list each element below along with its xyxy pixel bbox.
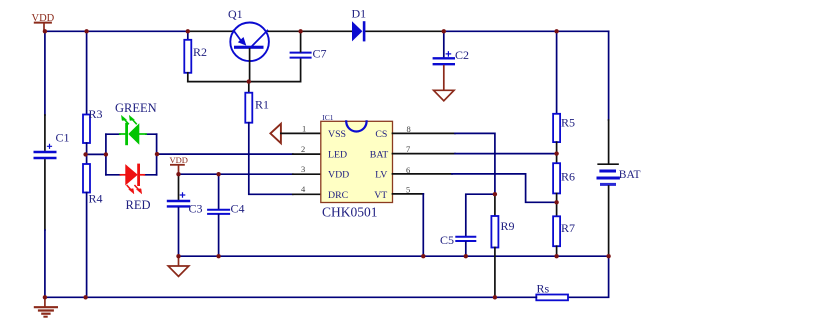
resistor R2	[187, 31, 189, 40]
svg-text:C7: C7	[313, 47, 327, 61]
junction LED box left	[104, 152, 108, 156]
capacitor C2	[443, 31, 445, 57]
svg-text:7: 7	[406, 144, 410, 154]
svg-text:VDD: VDD	[32, 13, 55, 24]
svg-text:R2: R2	[193, 45, 207, 59]
junction VDD port / C3 / pin3 line	[176, 172, 180, 176]
wire top rail D1 to C2	[365, 30, 443, 32]
diode D1	[352, 21, 365, 41]
svg-text:RED: RED	[126, 198, 151, 212]
svg-text:DRC: DRC	[328, 190, 348, 201]
wire pin6 LV route	[393, 173, 453, 175]
wire battery bottom vertical	[608, 186, 610, 256]
svg-text:VSS: VSS	[328, 129, 346, 140]
wire top rail left (VDD to R2)	[45, 30, 188, 32]
svg-text:CHK0501: CHK0501	[322, 205, 378, 220]
junction sense line / battery minus	[606, 254, 610, 258]
wire pin7 BAT line	[393, 153, 456, 155]
junction VDD rail / R2 top	[186, 29, 190, 33]
svg-text:VDD: VDD	[328, 170, 349, 181]
junction C4 bottom / sense line	[216, 254, 220, 258]
svg-text:IC1: IC1	[322, 113, 334, 122]
junction rail / R5 top	[554, 29, 558, 33]
wire left vertical upper (VDD rail to C1)	[44, 31, 46, 115]
junction pin6 / R6 / R7	[554, 200, 558, 204]
wire LED box right vertical	[156, 134, 158, 175]
wire top rail C2 to right corner	[444, 30, 609, 32]
wire LED box top branch	[106, 133, 157, 135]
capacitor C4	[218, 174, 220, 209]
capacitor C3	[178, 174, 180, 199]
svg-text:VT: VT	[374, 190, 387, 201]
wire R3 to R4	[86, 143, 88, 164]
junction pin5 / sense line	[421, 254, 425, 258]
junction VDD rail / C7 top	[298, 29, 302, 33]
wire pin5 VT route	[393, 193, 424, 195]
junction C4 top / pin3 line	[216, 172, 220, 176]
wire pin3 VDD line	[179, 173, 293, 175]
IC pin names	[328, 129, 388, 201]
wire R1 down to DRC pin line	[249, 123, 293, 195]
svg-text:8: 8	[407, 124, 411, 134]
svg-text:Rs: Rs	[537, 282, 550, 296]
LED GREEN (D green, cathode bar left)	[120, 116, 146, 144]
junction R7 bottom / sense line	[554, 254, 558, 258]
IC U1 CHK0501 body	[321, 121, 393, 202]
svg-text:BAT: BAT	[370, 149, 389, 160]
wire left vertical lower (C1 to ground rail)	[44, 160, 46, 230]
pin 3 stub	[293, 173, 321, 175]
junction C3 bottom / gnd triangle	[176, 254, 180, 258]
wire R4 to ground rail	[86, 193, 88, 298]
ground (power gnd) below C3	[178, 256, 180, 266]
svg-text:3: 3	[301, 164, 305, 174]
svg-text:D1: D1	[352, 7, 367, 21]
resistor R9	[491, 216, 498, 248]
wire pin8 CS right then down	[393, 132, 456, 134]
svg-text:C5: C5	[440, 233, 454, 247]
power port VDD top-left	[35, 23, 51, 32]
pin 2 stub	[293, 153, 321, 155]
svg-text:2: 2	[301, 144, 305, 154]
earth ground bottom-left	[35, 297, 57, 316]
svg-text:Q1: Q1	[228, 7, 243, 21]
svg-text:LED: LED	[328, 149, 347, 160]
svg-text:C2: C2	[455, 48, 469, 62]
wire base line R2 to C7 riser	[188, 58, 301, 81]
svg-text:5: 5	[406, 184, 410, 194]
svg-text:R5: R5	[561, 116, 575, 130]
capacitor C7	[291, 53, 311, 58]
capacitor C5	[456, 237, 475, 241]
resistor R1	[248, 82, 250, 93]
wire stub R3R4 node to LED box	[86, 153, 106, 155]
junction ground rail / R9	[493, 295, 497, 299]
junction C5 bottom / sense line	[464, 254, 468, 258]
svg-text:R6: R6	[561, 170, 575, 184]
svg-text:LV: LV	[375, 170, 387, 181]
svg-text:R9: R9	[501, 219, 515, 233]
battery BAT	[598, 164, 618, 184]
svg-text:VDD: VDD	[170, 155, 188, 165]
wire battery top vertical	[608, 31, 610, 120]
wire LED box left vertical	[105, 134, 107, 175]
wire pin2 LED line	[157, 153, 293, 155]
junction rail / C2 top	[442, 29, 446, 33]
svg-text:CS: CS	[375, 129, 387, 140]
wire pin1 VSS	[281, 132, 321, 134]
transistor Q1	[230, 23, 269, 82]
junction R3 R4 LED tap	[83, 152, 87, 156]
wire LED box bottom branch	[106, 174, 157, 176]
svg-text:C3: C3	[189, 202, 203, 216]
wire ground rail	[45, 296, 536, 298]
junction LED box right	[155, 152, 159, 156]
junction VDD rail / R3 branch	[84, 29, 88, 33]
resistor R3	[83, 115, 90, 144]
svg-text:R3: R3	[89, 107, 103, 121]
junction CS line / C5 / R9 top	[493, 192, 497, 196]
ground (power gnd) below C2	[434, 90, 454, 101]
IC notch	[346, 121, 366, 131]
wire R9 to ground rail	[494, 248, 496, 298]
wire R3 rail drop	[86, 31, 88, 114]
wire top rail Q1 to C7	[267, 30, 351, 32]
svg-text:BAT: BAT	[619, 169, 641, 181]
svg-text:C4: C4	[231, 202, 245, 216]
IC pin numbers	[301, 123, 411, 194]
wire C5 jog	[466, 194, 495, 236]
junction pin7 / R5 / R6	[554, 151, 558, 155]
LED RED (D red, cathode bar right)	[121, 165, 145, 194]
junction Q1 base / R2 / R1	[247, 79, 251, 83]
svg-text:R7: R7	[561, 221, 575, 235]
pin 4 stub	[293, 193, 321, 195]
capacitor C1	[35, 144, 55, 158]
svg-text:1: 1	[302, 123, 306, 133]
resistor R6	[556, 154, 558, 164]
junction ground rail / earth	[43, 295, 47, 299]
resistor Rs	[536, 295, 568, 301]
svg-text:R1: R1	[255, 98, 269, 112]
power port VDD mid	[171, 165, 184, 174]
R9 top stub	[494, 194, 496, 216]
no-connect arrow on pin 1	[270, 124, 281, 143]
resistor R7	[556, 202, 558, 216]
svg-text:C1: C1	[56, 131, 70, 145]
svg-text:GREEN: GREEN	[115, 101, 157, 115]
resistor R4	[83, 164, 90, 193]
wire sense line (mid ground net)	[179, 255, 609, 257]
junction ground rail / R4	[83, 295, 87, 299]
svg-text:R4: R4	[89, 192, 103, 206]
wire top rail R2 to Q1	[188, 30, 234, 32]
wire C2 to ground symbol	[443, 66, 445, 91]
resistor R5	[556, 31, 558, 114]
junction VDD rail / C1 branch	[43, 29, 47, 33]
